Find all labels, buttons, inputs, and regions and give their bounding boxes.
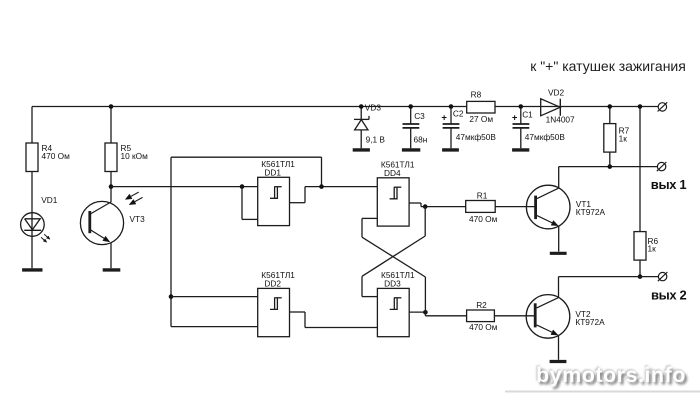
svg-text:к "+" катушек зажигания: к "+" катушек зажигания [530, 58, 686, 74]
svg-text:27 Ом: 27 Ом [469, 114, 493, 124]
svg-text:DD3: DD3 [384, 279, 401, 289]
svg-text:КТ972А: КТ972А [576, 207, 606, 217]
svg-text:bymotors.info: bymotors.info [536, 363, 686, 387]
svg-text:DD4: DD4 [384, 168, 401, 178]
svg-text:R8: R8 [471, 90, 482, 100]
svg-text:DD2: DD2 [264, 279, 281, 289]
svg-text:470 Ом: 470 Ом [42, 151, 71, 161]
svg-text:+: + [512, 112, 518, 123]
svg-text:1N4007: 1N4007 [546, 115, 575, 125]
svg-text:C1: C1 [522, 109, 533, 119]
svg-text:470 Ом: 470 Ом [469, 214, 498, 224]
svg-text:9,1 В: 9,1 В [366, 135, 386, 145]
svg-text:1к: 1к [648, 244, 657, 254]
svg-text:КТ972А: КТ972А [575, 317, 605, 327]
svg-text:VD1: VD1 [41, 195, 58, 205]
svg-text:C3: C3 [414, 111, 425, 121]
svg-text:VT3: VT3 [130, 214, 146, 224]
svg-text:VD2: VD2 [548, 88, 565, 98]
svg-text:470 Ом: 470 Ом [469, 322, 498, 332]
svg-text:47мкф50В: 47мкф50В [525, 132, 566, 142]
svg-text:VD3: VD3 [365, 103, 382, 113]
svg-text:DD1: DD1 [264, 168, 281, 178]
svg-text:R2: R2 [476, 300, 487, 310]
svg-text:10 кОм: 10 кОм [121, 151, 149, 161]
svg-text:+: + [441, 112, 447, 123]
svg-text:68н: 68н [414, 135, 428, 145]
svg-text:47мкф50В: 47мкф50В [456, 132, 497, 142]
svg-text:C2: C2 [453, 108, 464, 118]
svg-text:вых 1: вых 1 [651, 177, 687, 192]
svg-text:вых 2: вых 2 [651, 288, 687, 303]
svg-text:R1: R1 [477, 190, 488, 200]
svg-text:1к: 1к [619, 134, 628, 144]
